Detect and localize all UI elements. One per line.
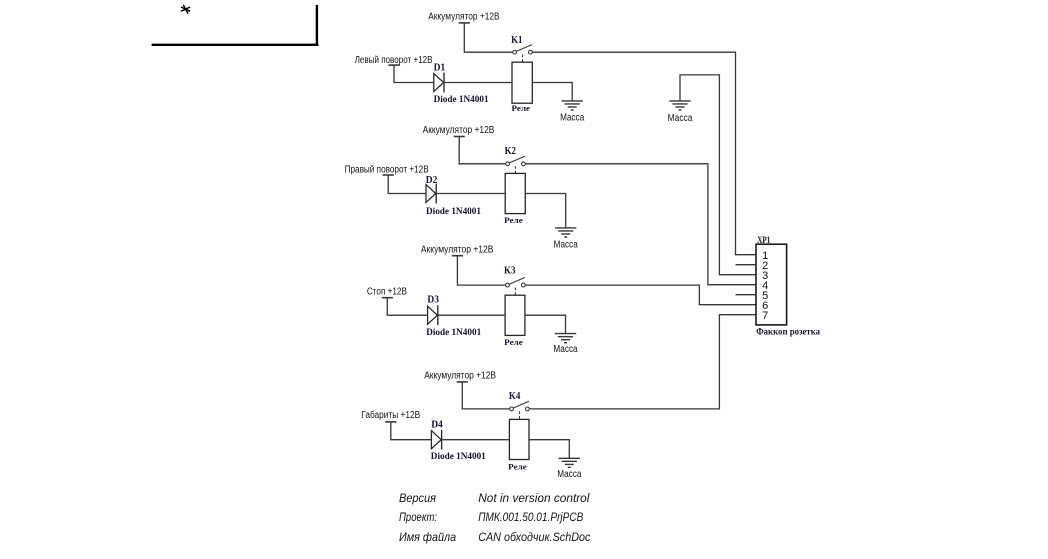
svg-text:Стоп +12В: Стоп +12В bbox=[367, 286, 407, 297]
svg-text:Правый поворот +12В: Правый поворот +12В bbox=[345, 165, 429, 176]
svg-text:Diode 1N4001: Diode 1N4001 bbox=[434, 95, 489, 105]
relay coil K1 bbox=[512, 62, 532, 103]
power port Аккумулятор +12В (K2 block) bbox=[423, 125, 495, 136]
svg-text:Not in version control: Not in version control bbox=[478, 491, 590, 505]
switch K4 contacts bbox=[510, 401, 530, 411]
ground Масса (K3 block) bbox=[555, 334, 576, 343]
svg-text:Аккумулятор +12В: Аккумулятор +12В bbox=[423, 125, 495, 136]
svg-text:XP1: XP1 bbox=[757, 235, 770, 246]
svg-text:Аккумулятор +12В: Аккумулятор +12В bbox=[421, 245, 494, 256]
wire port to diode D2 bbox=[388, 175, 426, 194]
svg-text:K4: K4 bbox=[509, 391, 520, 402]
svg-text:Факкоп розетка: Факкоп розетка bbox=[756, 327, 820, 337]
switch K2 contacts bbox=[506, 156, 526, 166]
power port Аккумулятор +12В (K1 block) bbox=[428, 11, 500, 23]
wire D2 to relay K2 bbox=[436, 193, 505, 195]
dashed link K1 to relay coil bbox=[522, 55, 524, 62]
dashed link K3 to relay coil bbox=[514, 288, 516, 295]
wire battery port to switch K1 bbox=[464, 23, 513, 52]
svg-text:Аккумулятор +12В: Аккумулятор +12В bbox=[424, 370, 496, 381]
sheet zone asterisk mark bbox=[181, 5, 190, 14]
wire battery port to switch K3 bbox=[457, 256, 505, 285]
diode D1 bbox=[434, 73, 444, 93]
dashed link K4 to relay coil bbox=[519, 411, 521, 419]
svg-text:CAN обходчик.SchDoc: CAN обходчик.SchDoc bbox=[478, 530, 590, 544]
wire relay K1 to ground bbox=[532, 83, 572, 101]
svg-text:Масса: Масса bbox=[557, 469, 582, 480]
svg-text:Масса: Масса bbox=[553, 344, 578, 355]
power port Правый поворот +12В bbox=[345, 165, 429, 176]
wire K1 switch to XP1 pin 1 bbox=[532, 52, 756, 255]
svg-text:Версия: Версия bbox=[399, 491, 437, 505]
wire port to diode D4 bbox=[391, 422, 432, 440]
ground Масса (K2 block) bbox=[555, 228, 576, 237]
wire D1 to relay K1 bbox=[444, 82, 512, 84]
svg-text:Габариты +12В: Габариты +12В bbox=[361, 409, 420, 421]
svg-text:Аккумулятор +12В: Аккумулятор +12В bbox=[428, 11, 500, 22]
wire XP1 pin 3 to chassis ground bbox=[680, 75, 757, 275]
svg-text:Реле: Реле bbox=[504, 337, 523, 347]
connector XP1 body bbox=[756, 244, 787, 325]
svg-text:D1: D1 bbox=[434, 62, 446, 73]
switch K3 contacts bbox=[506, 278, 526, 288]
svg-text:Масса: Масса bbox=[560, 112, 585, 123]
svg-text:Реле: Реле bbox=[504, 215, 523, 225]
ground Масса (K4 block) bbox=[559, 458, 580, 467]
svg-text:Масса: Масса bbox=[554, 239, 579, 250]
switch K1 contacts bbox=[513, 45, 533, 55]
svg-text:Diode 1N4001: Diode 1N4001 bbox=[431, 452, 486, 462]
svg-text:K2: K2 bbox=[505, 146, 516, 157]
wire relay K4 to ground bbox=[529, 440, 569, 459]
power port Габариты +12В bbox=[361, 409, 420, 422]
svg-text:D4: D4 bbox=[431, 420, 443, 431]
wire port to diode D1 bbox=[394, 65, 434, 82]
wire battery port to switch K2 bbox=[459, 137, 506, 164]
wire K2 switch to XP1 pin 4 bbox=[525, 164, 756, 285]
wire relay K3 to ground bbox=[525, 315, 566, 333]
svg-text:Реле: Реле bbox=[508, 462, 527, 472]
power port Аккумулятор +12В (K4 block) bbox=[424, 370, 496, 382]
wire K4 switch to XP1 pin 7 bbox=[529, 315, 756, 409]
svg-text:Реле: Реле bbox=[512, 103, 531, 113]
sheet border horizontal line bbox=[152, 44, 319, 46]
wire K3 switch to XP1 pin 6 bbox=[525, 285, 756, 305]
svg-text:7: 7 bbox=[762, 310, 768, 322]
svg-text:Проект:: Проект: bbox=[399, 510, 437, 524]
svg-text:ПМК.001.50.01.PrjPCB: ПМК.001.50.01.PrjPCB bbox=[478, 510, 583, 524]
svg-text:D3: D3 bbox=[427, 295, 439, 306]
svg-text:K3: K3 bbox=[504, 266, 515, 277]
relay coil K2 bbox=[505, 173, 525, 213]
pin 2 stub (XP1) bbox=[736, 264, 757, 266]
diode D4 bbox=[431, 430, 441, 450]
diode D3 bbox=[428, 305, 438, 325]
dashed link K2 to relay coil bbox=[515, 166, 517, 173]
sheet border vertical line bbox=[316, 5, 318, 46]
wire D4 to relay K4 bbox=[442, 439, 510, 441]
svg-text:D2: D2 bbox=[426, 175, 438, 186]
wire battery port to switch K4 bbox=[462, 382, 510, 409]
diode D2 bbox=[426, 184, 436, 204]
wire relay K2 to ground bbox=[525, 194, 565, 228]
wire port to diode D3 bbox=[387, 298, 428, 316]
svg-text:K1: K1 bbox=[511, 35, 522, 46]
svg-text:Diode 1N4001: Diode 1N4001 bbox=[426, 328, 481, 338]
wire D3 to relay K3 bbox=[438, 314, 505, 316]
ground Масса (chassis, XP1 pin 3) bbox=[669, 101, 690, 110]
svg-text:Масса: Масса bbox=[668, 113, 693, 124]
svg-text:Левый поворот +12В: Левый поворот +12В bbox=[355, 55, 433, 66]
pin 5 stub (XP1) bbox=[736, 294, 757, 296]
relay coil K3 bbox=[505, 295, 525, 335]
power port Аккумулятор +12В (K3 block) bbox=[421, 245, 494, 256]
svg-text:Имя файла: Имя файла bbox=[399, 530, 456, 544]
svg-text:Diode 1N4001: Diode 1N4001 bbox=[426, 207, 481, 217]
ground Масса (K1 block) bbox=[562, 101, 583, 110]
relay coil K4 bbox=[509, 419, 529, 459]
power port Стоп +12В bbox=[367, 286, 407, 297]
power port Левый поворот +12В bbox=[355, 55, 433, 66]
